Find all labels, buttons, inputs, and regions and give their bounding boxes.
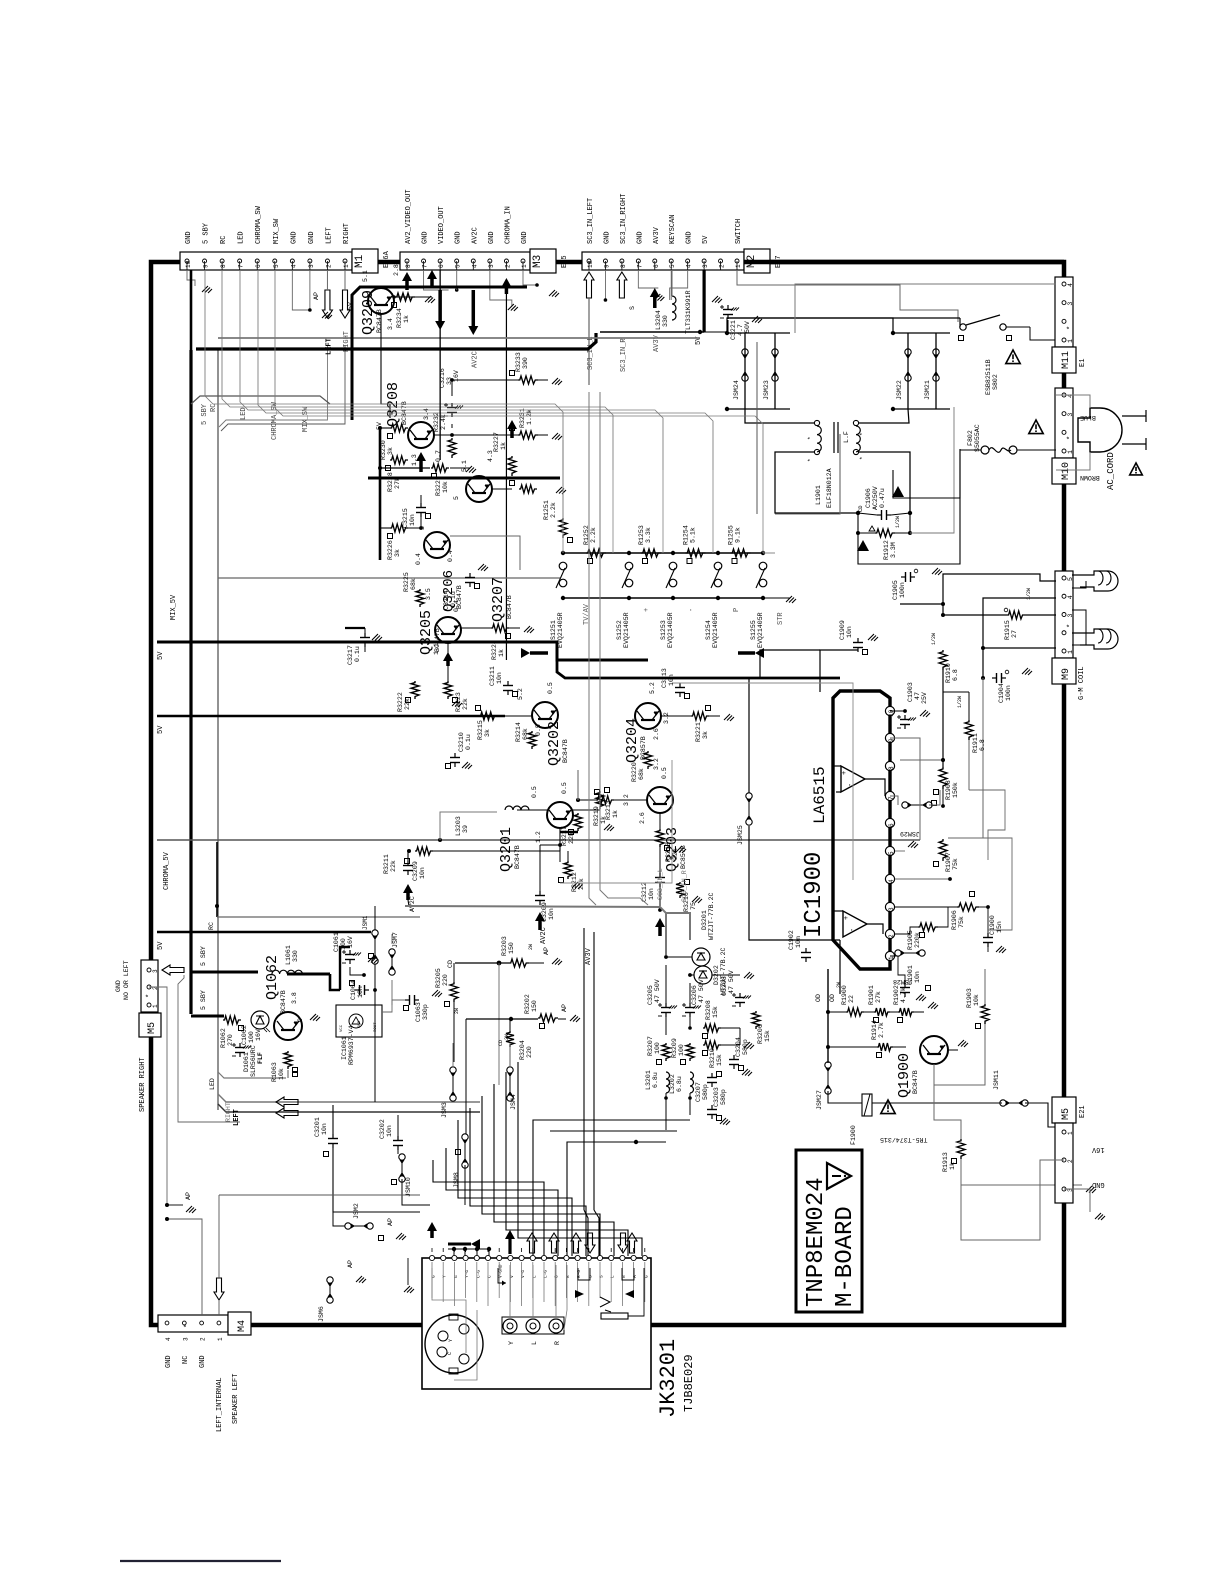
svg-text:JSM11: JSM11	[993, 1070, 1000, 1090]
svg-text:0.5: 0.5	[561, 782, 568, 794]
svg-text:R3214: R3214	[515, 722, 522, 742]
jumper JSM27	[825, 1062, 831, 1068]
warning triangle f802	[1029, 420, 1043, 434]
ground r3210	[744, 1042, 750, 1048]
svg-text:2.8: 2.8	[393, 264, 400, 276]
ground r3233	[552, 378, 558, 384]
coil L3201	[666, 1072, 670, 1093]
connector M5 E21	[1052, 1097, 1076, 1123]
svg-text:1k: 1k	[498, 649, 505, 657]
capacitor C3206	[689, 1003, 691, 1008]
wire jumpers top rail	[727, 318, 893, 333]
resistor R3216	[676, 882, 684, 898]
resistor R1253	[641, 549, 661, 557]
svg-text:Y: Y	[442, 1275, 448, 1278]
svg-text:3: 3	[308, 264, 315, 268]
jumper JSM22	[905, 349, 911, 355]
resistor R1902	[898, 1008, 914, 1016]
capacitor C1064	[355, 989, 360, 991]
gray wire s802 down	[910, 407, 954, 533]
capacitor C1061	[349, 950, 351, 955]
svg-text:2W: 2W	[528, 944, 534, 950]
wire m4 pin1	[218, 1195, 220, 1278]
capacitor C3202	[397, 1136, 399, 1141]
wire r1912 to right	[858, 449, 960, 564]
svg-text:L3203: L3203	[455, 816, 462, 836]
wire transformer left bottom	[775, 452, 858, 513]
wire M1 gnd pins	[292, 270, 310, 310]
svg-text:R1903: R1903	[966, 988, 973, 1008]
svg-text:15k: 15k	[712, 1006, 719, 1018]
resistor R3232	[448, 438, 456, 458]
arrow q3205	[443, 652, 453, 661]
wire r3202	[465, 1019, 467, 1134]
svg-text:-: -	[688, 608, 696, 612]
resistor R3204	[506, 1031, 514, 1047]
svg-text:R3219: R3219	[593, 806, 600, 826]
svg-text:7: 7	[422, 264, 429, 268]
long wire ic to left	[839, 940, 841, 994]
wire left audio	[326, 270, 328, 290]
svg-text:Q3208: Q3208	[385, 382, 402, 427]
warning triangle S802	[1006, 350, 1020, 364]
resistor R1911	[965, 720, 973, 740]
svg-text:C3206: C3206	[691, 985, 698, 1005]
svg-text:R3208: R3208	[705, 1000, 712, 1020]
transistor Q3209	[368, 288, 394, 314]
svg-text:-: -	[847, 783, 855, 787]
svg-text:F802: F802	[967, 430, 974, 446]
ground c3210	[462, 762, 468, 768]
resistor R3210	[703, 1041, 721, 1049]
wire sc3 vertical left	[589, 392, 596, 905]
wire m5e21 gnd	[1064, 1189, 1090, 1212]
jumper JSM25	[746, 793, 752, 799]
svg-text:TR5-T374/315: TR5-T374/315	[880, 1136, 928, 1143]
svg-text:AV3V: AV3V	[653, 226, 661, 244]
svg-text:R3211: R3211	[383, 854, 390, 874]
svg-text:SC3_IN_L: SC3_IN_L	[657, 868, 664, 900]
DIN socket circle	[425, 1315, 483, 1373]
wire c3221	[700, 331, 728, 333]
svg-text:0.4: 0.4	[453, 600, 460, 612]
svg-text:SPEAKER LEFT: SPEAKER LEFT	[232, 1374, 240, 1424]
svg-text:R3217: R3217	[561, 826, 568, 846]
IC1900 pin 3	[885, 902, 894, 911]
arrow AV2C down	[468, 326, 478, 335]
resistor R3203	[509, 959, 529, 967]
svg-text:C3203: C3203	[713, 1087, 720, 1107]
transistor Q1900	[920, 1036, 948, 1064]
bus LED elbow	[218, 1072, 286, 1078]
svg-text:390: 390	[522, 357, 529, 369]
resistor R1062	[223, 1016, 241, 1024]
resistor R1905	[918, 923, 938, 931]
thick feed arrows mid	[521, 648, 530, 658]
ground c1900	[996, 946, 1002, 952]
svg-text:LEFT_INTERNAL: LEFT_INTERNAL	[216, 1377, 224, 1432]
wire r1913	[934, 1064, 961, 1139]
AP dot gnd m4 area	[165, 1203, 169, 1207]
svg-text:F1900: F1900	[850, 1125, 857, 1145]
svg-text:0.7: 0.7	[435, 450, 442, 462]
svg-text:10n: 10n	[668, 674, 675, 686]
resistor R1252	[586, 549, 606, 557]
wire jsm29	[890, 796, 898, 805]
wire transformer left top	[745, 409, 814, 423]
jumper JSM28	[895, 950, 901, 956]
svg-text:1: 1	[1067, 339, 1074, 343]
svg-text:1: 1	[1067, 450, 1074, 454]
transistor Q3201	[547, 802, 573, 828]
svg-text:220: 220	[442, 974, 449, 986]
svg-text:A: A	[632, 1275, 638, 1278]
IC1900 pin 9	[885, 733, 894, 742]
svg-text:R3205: R3205	[435, 968, 442, 988]
resistor R3202	[538, 1014, 558, 1022]
svg-text:JSM2: JSM2	[353, 1203, 360, 1219]
svg-text:R1901: R1901	[868, 985, 875, 1005]
svg-text:R1915: R1915	[1004, 620, 1011, 640]
ground c3217	[372, 634, 378, 640]
svg-text:68k: 68k	[638, 768, 645, 780]
ground c1063	[432, 990, 438, 996]
wire sc3 bottom	[664, 1096, 668, 1100]
svg-text:R1062: R1062	[220, 1028, 227, 1048]
capacitor C1905	[901, 576, 906, 578]
svg-text:R3204: R3204	[519, 1040, 526, 1060]
wire r3203	[455, 962, 509, 964]
svg-text:L3202: L3202	[669, 1074, 676, 1094]
arrow mid sc3	[655, 918, 665, 927]
resistor R3226	[390, 524, 408, 532]
wire M1 pin10 gnd	[187, 270, 195, 286]
wire to switch S802	[959, 318, 961, 327]
svg-text:G: G	[453, 1275, 459, 1278]
svg-text:V-GND: V-GND	[498, 1264, 504, 1278]
svg-text:JSM10: JSM10	[405, 1177, 412, 1197]
svg-text:15n: 15n	[996, 921, 1003, 933]
svg-text:*: *	[807, 436, 814, 440]
svg-text:CHROMA_IN: CHROMA_IN	[504, 206, 512, 244]
svg-text:10k: 10k	[973, 994, 980, 1006]
svg-text:5.1k: 5.1k	[690, 527, 697, 543]
svg-text:M5: M5	[147, 1022, 158, 1034]
svg-text:R3226: R3226	[387, 540, 394, 560]
svg-text:AV3V: AV3V	[653, 334, 661, 352]
svg-text:2.4k: 2.4k	[440, 414, 447, 430]
svg-text:5 SBY: 5 SBY	[201, 403, 209, 425]
IC1900 pin 8	[885, 761, 894, 770]
resistor R3218	[656, 829, 664, 847]
svg-text:S: S	[599, 1275, 605, 1278]
svg-text:10n: 10n	[846, 626, 853, 638]
wire caps	[665, 965, 667, 1003]
svg-text:RIGHT: RIGHT	[343, 223, 351, 244]
svg-text:2.7k: 2.7k	[878, 1022, 885, 1038]
wire q3209 to q3208	[381, 314, 390, 418]
wire r1910	[942, 670, 944, 767]
svg-text:LEFT: LEFT	[325, 338, 333, 355]
svg-text:4: 4	[1067, 283, 1074, 287]
svg-text:R1906: R1906	[951, 910, 958, 930]
svg-text:4: 4	[165, 1337, 172, 1341]
resistor R1903	[981, 1004, 989, 1024]
wire m3 gnd3	[490, 270, 512, 306]
wire into c1061	[330, 974, 340, 990]
resistor R1915	[1007, 611, 1025, 619]
connector M11	[1055, 277, 1073, 347]
connector M10	[1055, 388, 1073, 458]
svg-text:AC_CORD: AC_CORD	[1106, 452, 1116, 490]
wire m2 gnd4	[670, 270, 688, 300]
svg-text:2: 2	[1067, 1159, 1074, 1163]
svg-text:AV2C: AV2C	[409, 896, 416, 912]
wire r1914	[828, 1046, 877, 1048]
svg-text:R3225: R3225	[403, 572, 410, 592]
wire q3201 c	[573, 809, 600, 811]
resistor R3220	[644, 751, 652, 769]
bus RC gray	[217, 916, 420, 918]
svg-text:R1914: R1914	[871, 1020, 878, 1040]
svg-text:GND: GND	[1092, 1180, 1105, 1188]
svg-text:3k: 3k	[484, 729, 491, 737]
ground r3203b	[552, 958, 558, 964]
svg-text:R3234: R3234	[396, 308, 403, 328]
svg-text:Y: Y	[448, 1339, 454, 1342]
svg-text:27: 27	[1011, 630, 1018, 638]
coil L3202	[690, 1072, 694, 1093]
svg-text:*: *	[859, 432, 866, 436]
svg-text:RC: RC	[220, 236, 228, 244]
svg-text:L1901: L1901	[815, 485, 822, 505]
svg-text:AP: AP	[387, 1218, 394, 1226]
resistor R1255	[731, 549, 751, 557]
svg-text:L: L	[531, 1341, 538, 1345]
svg-text:GND: GND	[521, 231, 529, 244]
svg-text:2W: 2W	[504, 1034, 510, 1040]
wire m3 gnd7	[424, 270, 449, 290]
jumper JSM10	[399, 1154, 405, 1160]
wire 16V	[961, 1160, 1064, 1240]
wire din	[432, 1268, 466, 1353]
resistor R3208b	[703, 1024, 721, 1032]
svg-text:6.8u: 6.8u	[652, 1072, 659, 1088]
svg-text:GND: GND	[199, 1355, 207, 1368]
bus top rail thick	[196, 333, 596, 349]
svg-text:2W: 2W	[454, 1008, 460, 1014]
bus gray top rail	[218, 337, 700, 339]
svg-text:+: +	[841, 771, 849, 775]
ground q1900	[958, 1040, 964, 1046]
svg-text:CHROMA_5V: CHROMA_5V	[163, 851, 171, 890]
svg-text:R3232: R3232	[433, 412, 440, 432]
footer rule	[120, 1560, 281, 1562]
svg-text:R1907: R1907	[945, 852, 952, 872]
capacitor C3204	[733, 1055, 735, 1060]
wire transformer right bottom	[859, 452, 910, 513]
svg-text:1/2W: 1/2W	[895, 516, 901, 528]
svg-text:R1913: R1913	[942, 1152, 949, 1172]
transistor Q3205	[435, 617, 461, 643]
svg-text:BC847B: BC847B	[562, 739, 569, 763]
svg-text:3: 3	[888, 907, 895, 911]
svg-text:M3: M3	[532, 255, 544, 268]
resistor R1914	[877, 1043, 893, 1051]
switch ladder top rail	[563, 552, 763, 554]
svg-text:R: R	[565, 1275, 571, 1278]
capacitor C3209	[407, 861, 409, 866]
svg-text:C-G: C-G	[475, 1270, 481, 1278]
jk pin cluster dots	[452, 1247, 456, 1251]
svg-text:1k: 1k	[500, 442, 507, 450]
JK3201 interior pin stubs	[431, 1262, 433, 1298]
wire r1900 net	[789, 940, 791, 969]
ground ladder	[786, 596, 792, 602]
svg-text:R1911: R1911	[972, 733, 979, 753]
svg-text:JSM22: JSM22	[896, 380, 903, 400]
svg-text:75: 75	[690, 902, 697, 910]
svg-text:JSM8: JSM8	[453, 1172, 460, 1188]
jumper JSM24	[742, 349, 748, 355]
wire r3205	[453, 963, 455, 982]
wire opamp2	[833, 910, 843, 912]
wire 5sby to coil	[257, 972, 259, 974]
svg-text:10k: 10k	[442, 481, 449, 493]
svg-text:L: L	[531, 1275, 537, 1278]
bus black vertical x217	[216, 842, 218, 917]
svg-text:1k: 1k	[600, 816, 607, 824]
svg-text:C3201: C3201	[314, 1117, 321, 1137]
switch S1255	[761, 551, 765, 555]
wire r1908	[890, 738, 943, 767]
resistor R3233	[518, 376, 538, 384]
svg-text:C3213: C3213	[661, 668, 668, 688]
IC1900 pin 6	[885, 818, 894, 827]
resistor R3221	[691, 712, 709, 720]
capacitor C1063	[405, 999, 410, 1001]
svg-text:5.1: 5.1	[461, 460, 468, 472]
svg-text:GND: GND	[358, 1020, 362, 1028]
wire chroma_in long	[505, 640, 507, 660]
svg-text:RPM6937-V4: RPM6937-V4	[348, 1025, 355, 1065]
transistor Q3204	[635, 703, 661, 729]
svg-text:C1062: C1062	[241, 1025, 248, 1045]
svg-text:R-G: R-G	[576, 1270, 582, 1278]
svg-text:10m: 10m	[795, 936, 802, 948]
svg-text:S802: S802	[992, 374, 999, 390]
svg-text:4: 4	[1067, 595, 1074, 599]
svg-text:0.5: 0.5	[547, 682, 554, 694]
svg-text:BC847B: BC847B	[280, 990, 287, 1014]
svg-text:5: 5	[1067, 577, 1074, 581]
capacitor C1902	[805, 948, 807, 953]
wire c1905 net	[943, 574, 1056, 604]
svg-text:7: 7	[888, 796, 895, 800]
svg-text:150: 150	[508, 942, 515, 954]
svg-text:C3217: C3217	[347, 645, 354, 665]
svg-text:2W: 2W	[836, 982, 842, 988]
svg-text:3: 3	[182, 1337, 189, 1341]
svg-text:15k: 15k	[764, 1030, 771, 1042]
svg-text:22k: 22k	[390, 860, 397, 872]
svg-text:AV3V: AV3V	[585, 947, 593, 965]
wire rout	[382, 1000, 405, 1012]
ground r3213	[604, 824, 610, 830]
svg-text:S: S	[629, 306, 636, 310]
jumper JSM29	[902, 802, 908, 808]
jumper JSM4	[507, 1067, 513, 1073]
svg-text:CD: CD	[447, 960, 454, 968]
svg-text:ELF18N012A: ELF18N012A	[826, 468, 833, 508]
connector M5 speaker right	[141, 960, 158, 1012]
svg-text:1/2W: 1/2W	[957, 696, 963, 708]
svg-text:S5055AC: S5055AC	[974, 424, 981, 452]
resistor R3229	[431, 464, 449, 472]
wire r190x	[828, 1011, 846, 1013]
wire m10 brown	[1056, 452, 1090, 470]
ground b	[356, 1276, 362, 1282]
svg-text:5 SBY: 5 SBY	[200, 990, 207, 1010]
svg-text:R3218: R3218	[665, 842, 672, 862]
svg-text:C3210: C3210	[458, 732, 465, 752]
svg-text:3k: 3k	[394, 549, 401, 557]
wire ic top	[820, 650, 858, 692]
svg-text:3.3k: 3.3k	[645, 527, 652, 543]
svg-text:GND: GND	[165, 1355, 173, 1368]
svg-text:10: 10	[185, 260, 192, 268]
svg-text:JSM7: JSM7	[392, 932, 399, 948]
svg-text:AV2_VIDEO_OUT: AV2_VIDEO_OUT	[405, 189, 413, 244]
svg-text:C1063: C1063	[415, 1002, 422, 1022]
wire r1911	[968, 692, 970, 720]
TNP8EM024 M-BOARD label box	[796, 1150, 862, 1312]
transistor Q3202	[532, 702, 558, 728]
svg-text:1: 1	[888, 956, 895, 960]
ground c3204	[742, 1069, 748, 1075]
ground M1 pin10	[202, 286, 208, 292]
svg-text:JK3201: JK3201	[656, 1339, 681, 1418]
resistor R3225	[416, 589, 424, 607]
svg-text:10n: 10n	[648, 888, 655, 900]
resistor R3207	[662, 1043, 670, 1061]
svg-text:JSM1: JSM1	[362, 915, 369, 930]
resistor R1907	[939, 839, 947, 861]
connector M4	[158, 1315, 228, 1332]
svg-text:R1902: R1902	[893, 985, 900, 1005]
svg-text:5: 5	[455, 264, 462, 268]
IC1900 pin 10	[885, 706, 894, 715]
ground q1062	[310, 1014, 316, 1020]
thick bus corner mid	[557, 660, 840, 678]
svg-text:10n: 10n	[386, 1125, 393, 1137]
arrow r3227	[507, 420, 517, 429]
wire c3215	[420, 495, 422, 503]
wire chroma to q3201	[438, 838, 442, 842]
svg-text:GND: GND	[455, 231, 463, 244]
wire transformer right top	[859, 409, 909, 423]
jumper JSM21	[933, 349, 939, 355]
wire jsm25	[748, 678, 750, 793]
IC1900 pin 7	[885, 791, 894, 800]
capacitor C3216	[451, 403, 453, 408]
ground c1909	[868, 634, 874, 640]
capacitor C3221	[727, 305, 729, 310]
op-amp U1a	[841, 766, 865, 792]
wire m10 to blue	[1056, 395, 1090, 408]
svg-text:R3222: R3222	[397, 692, 404, 712]
switch S1253	[671, 551, 675, 555]
